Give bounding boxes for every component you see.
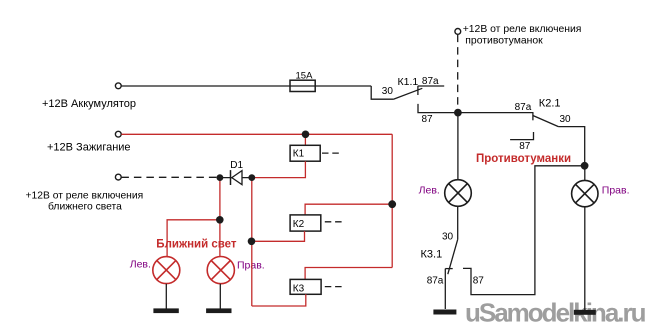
contact K1.1 arm bbox=[393, 88, 422, 99]
svg-text:Противотуманки: Противотуманки bbox=[476, 153, 571, 165]
dashed stub of K1 bbox=[322, 152, 342, 154]
lamp right fog bbox=[572, 180, 598, 206]
svg-text:К2.1: К2.1 bbox=[539, 97, 561, 109]
svg-text:ближнего света: ближнего света bbox=[48, 200, 122, 212]
ground left low-beam bbox=[153, 308, 178, 313]
svg-text:К3.1: К3.1 bbox=[421, 249, 443, 261]
svg-text:К3: К3 bbox=[293, 283, 305, 294]
wire K3 coil bottom bbox=[252, 294, 306, 306]
wire junction to left fog lamp bbox=[457, 113, 459, 180]
wire left low-beam lamp to ground bbox=[165, 284, 167, 309]
wire node to right fog lamp bbox=[584, 166, 586, 180]
svg-text:30: 30 bbox=[382, 86, 394, 97]
contact K1.1 87a line bbox=[418, 85, 445, 87]
wire 87a of K3.1 to ground bbox=[444, 269, 446, 309]
svg-text:+12В от реле включения: +12В от реле включения bbox=[463, 24, 582, 35]
wire 87 of K1.1 bbox=[418, 104, 534, 113]
wire through diode bbox=[220, 177, 252, 179]
svg-text:uSamodelkina.ru: uSamodelkina.ru bbox=[465, 298, 646, 328]
dashed wire low-beam feed bbox=[121, 176, 217, 178]
svg-text:87а: 87а bbox=[427, 276, 444, 287]
terminal +12V battery bbox=[115, 83, 121, 89]
wire 87 of K2.1 (dangling) bbox=[510, 132, 533, 140]
wire return bus left bbox=[251, 178, 253, 306]
wire K2.1 30 to right fog lamp bbox=[558, 127, 584, 166]
dashed stub of K3 bbox=[325, 286, 343, 288]
lamp right low-beam bbox=[207, 257, 234, 284]
node diode cathode side bbox=[248, 174, 255, 181]
svg-text:30: 30 bbox=[560, 114, 572, 125]
dashed wire from fog relay terminal bbox=[457, 35, 459, 110]
node K1 coil top bbox=[302, 131, 310, 139]
svg-text:противотуманок: противотуманок bbox=[465, 36, 543, 47]
wire through fuse bbox=[290, 85, 371, 87]
svg-text:Лев.: Лев. bbox=[130, 258, 151, 270]
wire node to K2 coil top bbox=[305, 204, 392, 215]
wire left fog lamp to K3.1 30 bbox=[457, 206, 459, 239]
node diode anode side bbox=[217, 174, 224, 181]
node low-beam lamp split bbox=[216, 216, 224, 224]
svg-text:Прав.: Прав. bbox=[237, 259, 265, 271]
relay coil K2 bbox=[290, 215, 321, 231]
terminal +12V from low-beam relay bbox=[115, 174, 121, 180]
wire right low-beam lamp to ground bbox=[219, 284, 221, 309]
wire ignition right riser bbox=[391, 134, 393, 267]
svg-text:+12В Аккумулятор: +12В Аккумулятор bbox=[42, 98, 136, 110]
wire ignition bus bbox=[121, 133, 392, 135]
node right fog lamp top bbox=[581, 162, 589, 170]
svg-text:30: 30 bbox=[442, 231, 454, 242]
svg-text:87а: 87а bbox=[515, 102, 532, 113]
lamp left fog bbox=[445, 180, 472, 207]
wire K3.1-87 riser to right lamp node bbox=[463, 166, 585, 295]
relay coil K3 bbox=[290, 279, 321, 294]
svg-text:15А: 15А bbox=[296, 70, 314, 81]
terminal +12V ignition bbox=[115, 131, 121, 137]
wire K1 coil bottom bbox=[252, 161, 306, 177]
svg-text:87а: 87а bbox=[422, 76, 439, 87]
svg-text:D1: D1 bbox=[230, 160, 243, 171]
wire right fog lamp to ground bbox=[584, 207, 586, 310]
contact K1.1 87a tick bbox=[417, 86, 419, 95]
svg-text:Прав.: Прав. bbox=[602, 184, 630, 196]
ground left fog bbox=[433, 310, 456, 315]
contact K3.1 arm bbox=[448, 239, 458, 274]
lamp left low-beam bbox=[153, 257, 180, 284]
svg-text:Ближний свет: Ближний свет bbox=[156, 238, 237, 250]
wire diode node down to low-beam lamps bbox=[219, 178, 221, 257]
diode D1 bbox=[230, 170, 232, 185]
svg-text:87: 87 bbox=[422, 114, 434, 125]
svg-text:К1.1: К1.1 bbox=[398, 76, 419, 88]
svg-text:Лев.: Лев. bbox=[419, 184, 440, 196]
contact K2.1 arm bbox=[533, 116, 559, 127]
wire ignition riser to K3 coil top bbox=[305, 268, 392, 280]
fuse F1 body bbox=[290, 80, 315, 91]
wire battery to fuse bbox=[121, 85, 290, 87]
wire to left low-beam lamp bbox=[167, 220, 220, 257]
wire node to K1 coil bbox=[304, 134, 306, 145]
contact K3.1 87a tick bbox=[445, 268, 452, 270]
svg-text:87: 87 bbox=[473, 276, 485, 287]
node junction fog feed bbox=[454, 109, 462, 117]
node K2 return bbox=[248, 238, 256, 246]
svg-text:К2: К2 bbox=[293, 219, 305, 230]
ground right low-beam bbox=[206, 308, 231, 313]
svg-text:+12В от реле включения: +12В от реле включения bbox=[26, 190, 144, 201]
svg-text:87: 87 bbox=[519, 141, 531, 152]
ground right fog bbox=[574, 310, 596, 315]
node ignition riser to K2 bbox=[388, 200, 396, 208]
contact K2.1 87a tick bbox=[532, 113, 534, 121]
svg-text:К1: К1 bbox=[293, 148, 305, 159]
wire K2 coil bottom bbox=[252, 231, 305, 241]
dashed stub of K2 bbox=[325, 221, 343, 223]
svg-text:+12В Зажигание: +12В Зажигание bbox=[47, 142, 131, 154]
relay coil K1 bbox=[290, 145, 320, 161]
terminal +12V fog relay bbox=[455, 29, 461, 35]
wire fuse to K1.1 step bbox=[371, 86, 393, 99]
